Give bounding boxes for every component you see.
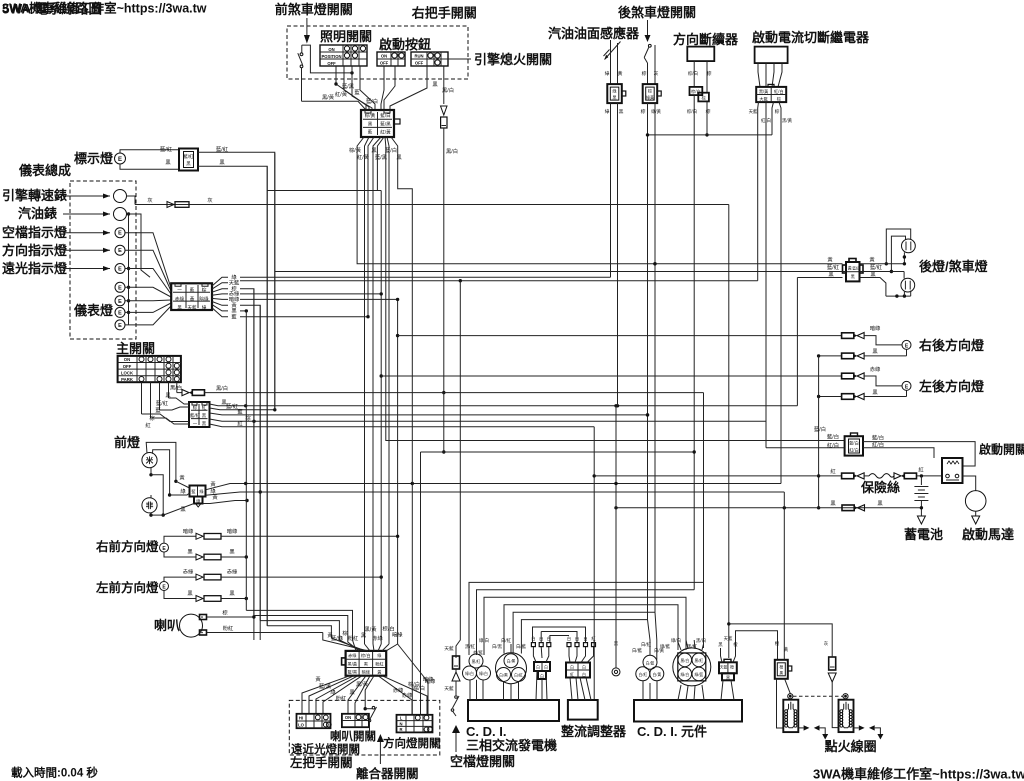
wire horn 粉紅 <box>207 624 323 633</box>
wire 右後方向燈 top <box>864 336 902 345</box>
wire 暗綠 rear long <box>398 335 842 337</box>
label 三相交流發電機 <box>466 738 557 753</box>
wire relay 棕 down <box>772 102 774 135</box>
wire 藍 end dot <box>646 413 649 416</box>
svg-text:標示燈: 標示燈 <box>74 151 114 166</box>
svg-text:藍/白: 藍/白 <box>827 433 839 441</box>
svg-text:綠/黃: 綠/黃 <box>651 108 661 115</box>
wire pickup leads up <box>533 647 548 662</box>
wire relay pin labels <box>749 108 793 124</box>
svg-text:E: E <box>118 323 122 329</box>
svg-text:天藍: 天藍 <box>229 279 240 287</box>
svg-text:紅/白: 紅/白 <box>827 441 839 449</box>
svg-text:棕/白: 棕/白 <box>687 108 697 115</box>
bus v 275 <box>274 153 276 410</box>
svg-text:LO: LO <box>298 723 305 728</box>
wire relay 紅白 down <box>765 102 767 448</box>
svg-text:E: E <box>118 285 122 291</box>
svg-text:黃: 黃 <box>377 669 381 676</box>
wire 啟動按鈕 pins down <box>381 66 395 110</box>
svg-text:藍/白: 藍/白 <box>366 97 378 105</box>
svg-text:ON: ON <box>124 357 130 362</box>
svg-text:黃: 黃 <box>848 265 852 271</box>
bus v 783 <box>783 492 785 660</box>
connector 後燈 <box>843 259 864 282</box>
wire 黑/白 right segment <box>444 392 704 394</box>
connector coil2 inline <box>829 657 836 670</box>
wire 暗綠 front long <box>221 535 398 537</box>
svg-text:黃: 黃 <box>827 256 833 264</box>
arrow 空檔 down <box>452 669 460 695</box>
connector 左把手開關 9-pin <box>342 651 387 676</box>
wire fan into 主開關 connector <box>142 392 190 429</box>
connector 標示燈 <box>179 149 198 171</box>
svg-text:綠: 綠 <box>210 487 216 495</box>
wire label 藍/黑 <box>342 82 355 90</box>
svg-text:白/藍: 白/藍 <box>632 647 643 654</box>
label 前煞車燈開關 <box>275 2 353 17</box>
wire horn 棕 <box>207 609 256 619</box>
wire 黑 tail bus <box>797 277 842 279</box>
connector 汽油油面感應器 <box>607 84 626 103</box>
svg-text:引擎轉速錶: 引擎轉速錶 <box>2 188 67 203</box>
wire bracket b9 <box>550 636 569 643</box>
wire stub cdi coil top <box>648 620 651 656</box>
lamp 遠光指示燈 <box>115 264 125 274</box>
wire 右後方向燈 bottom <box>906 349 908 356</box>
wire tach to grey line <box>127 196 136 205</box>
wire tail left labels <box>827 256 840 279</box>
wire 左後方向燈 bottom <box>906 390 908 396</box>
svg-text:方向指示燈: 方向指示燈 <box>2 243 68 258</box>
svg-text:粉紅: 粉紅 <box>348 634 359 642</box>
svg-text:白/黑: 白/黑 <box>499 673 508 678</box>
svg-text:汽油錶: 汽油錶 <box>18 206 57 221</box>
svg-text:RUN: RUN <box>414 53 423 58</box>
wire 黑 battery line <box>614 506 923 509</box>
label 方向斷續器 <box>673 32 739 47</box>
svg-text:前煞車燈開關: 前煞車燈開關 <box>275 2 353 17</box>
svg-text:紅/白: 紅/白 <box>872 441 884 449</box>
svg-text:橙: 橙 <box>779 665 783 670</box>
svg-text:左前方向燈: 左前方向燈 <box>95 580 159 595</box>
switch table 引擎熄火開關 <box>411 52 448 66</box>
svg-text:方向燈開關: 方向燈開關 <box>383 736 441 750</box>
svg-text:黑: 黑 <box>619 109 624 115</box>
label 右前方向燈 <box>95 539 159 554</box>
svg-text:灰: 灰 <box>147 196 152 204</box>
svg-text:白: 白 <box>567 635 571 642</box>
svg-text:黑/黃: 黑/黃 <box>356 680 369 688</box>
svg-text:棕: 棕 <box>775 108 780 115</box>
svg-text:白: 白 <box>536 665 540 670</box>
svg-text:OFF: OFF <box>380 60 389 65</box>
watermark bottom-right <box>813 767 1024 781</box>
svg-text:黃: 黃 <box>618 70 623 77</box>
svg-text:遠近光燈開關: 遠近光燈開關 <box>291 742 360 756</box>
svg-text:整流調整器: 整流調整器 <box>560 724 627 739</box>
bus v 356 <box>357 148 842 265</box>
wire 藍白 starter long <box>386 148 845 441</box>
switch 後煞車燈開關 contact <box>644 44 655 84</box>
lamp 儀表燈1 <box>115 282 125 292</box>
svg-text:右把手開關: 右把手開關 <box>411 6 477 21</box>
svg-text:E: E <box>118 310 122 316</box>
wire fan 左把手 to HI/LO <box>302 676 362 714</box>
wire 左後 to bus <box>817 395 907 398</box>
svg-text:暗綠: 暗綠 <box>392 631 403 639</box>
wire staircase bus2 <box>254 616 359 651</box>
ground circle <box>612 641 620 676</box>
wire label 藍/黑 below <box>375 153 388 161</box>
svg-text:白: 白 <box>582 665 586 670</box>
svg-text:藍/紅: 藍/紅 <box>183 153 194 160</box>
bus v 645 brake <box>646 103 649 620</box>
wire fan labels below <box>315 675 434 702</box>
wire label 藍/白 below <box>385 146 397 154</box>
wire 赤綠 front long <box>221 576 381 578</box>
svg-text:暗綠: 暗綠 <box>425 677 436 685</box>
arrow 汽油錶 <box>63 212 110 217</box>
connector symbols 左前方向燈 b <box>187 590 235 602</box>
svg-text:藍/白: 藍/白 <box>385 146 397 154</box>
cdi unit coil labels <box>632 641 665 654</box>
wire 主開關 pins down <box>142 382 177 418</box>
svg-text:灰: 灰 <box>824 640 829 647</box>
svg-text:綠黃: 綠黃 <box>646 94 654 100</box>
svg-text:灰: 灰 <box>654 70 659 77</box>
wire 前燈 loop1 <box>146 442 177 496</box>
wire 黑 to bus <box>240 309 248 312</box>
svg-text:黑: 黑 <box>779 672 783 676</box>
svg-text:一: 一 <box>177 288 182 293</box>
bus v 702 kill <box>703 393 705 648</box>
svg-text:棕: 棕 <box>701 94 705 101</box>
svg-text:黃: 黃 <box>210 480 216 488</box>
wire 藍紅 tail <box>860 272 905 279</box>
label 儀表燈 <box>73 303 114 318</box>
label 啟動馬達 <box>962 527 1014 542</box>
wire bracket b6 <box>521 620 647 654</box>
svg-text:C. D. I.: C. D. I. <box>466 724 506 739</box>
svg-text:儀表總成: 儀表總成 <box>18 163 71 178</box>
wire 紅 to rectifier <box>593 640 595 647</box>
wire 暗綠 long <box>240 298 398 300</box>
arrow 遠光指示燈 <box>63 266 110 271</box>
svg-text:黑: 黑 <box>432 81 438 88</box>
svg-text:綠: 綠 <box>605 70 610 77</box>
svg-text:3WA機車維修工作室~https://3wa.tw: 3WA機車維修工作室~https://3wa.tw <box>813 767 1024 781</box>
wire label 紅/黃 <box>335 90 348 98</box>
connector 前燈 <box>190 486 206 508</box>
wire pickup coil up <box>775 640 789 653</box>
svg-text:黑: 黑 <box>187 590 193 597</box>
svg-text:黑/紅: 黑/紅 <box>465 643 476 650</box>
connector 後煞車燈開關 <box>643 84 662 103</box>
svg-text:綠/藍: 綠/藍 <box>694 672 703 677</box>
switch table 主開關 <box>118 356 181 382</box>
dashed box 儀表總成 <box>70 181 136 339</box>
svg-text:汽油油面感應器: 汽油油面感應器 <box>548 26 640 41</box>
wire 主開關 黑 line <box>210 399 248 407</box>
lamp 前燈2 <box>142 498 157 513</box>
svg-text:黑: 黑 <box>872 389 878 396</box>
svg-text:左把手開關: 左把手開關 <box>289 755 353 770</box>
wire cdi conn labels <box>718 635 738 648</box>
svg-text:紅: 紅 <box>145 421 151 429</box>
svg-text:右後方向燈: 右後方向燈 <box>918 338 985 353</box>
bus v 797 <box>796 278 798 406</box>
svg-text:離合器開關: 離合器開關 <box>356 766 419 781</box>
svg-text:黑/黃: 黑/黃 <box>322 93 335 101</box>
svg-text:藍/黑: 藍/黑 <box>319 682 332 690</box>
lamp 儀表燈4 <box>115 320 125 330</box>
ignition coil 1 <box>783 694 798 733</box>
wire generator leads down <box>470 680 483 700</box>
label 離合器開關 <box>356 766 419 781</box>
svg-text:棕: 棕 <box>641 108 646 115</box>
svg-text:紅: 紅 <box>202 404 207 411</box>
svg-text:藍: 藍 <box>237 408 243 416</box>
wire fan 左把手 to turn switch <box>378 676 427 715</box>
bus v 254 <box>253 289 255 616</box>
wire bracket b5 <box>513 612 655 652</box>
svg-text:L: L <box>400 716 403 721</box>
wire label 藍/紅 b <box>216 145 229 153</box>
wire brake sw labels <box>641 70 662 115</box>
wire labels turn switch <box>402 677 436 699</box>
svg-text:喇叭: 喇叭 <box>154 618 180 633</box>
svg-text:主開關: 主開關 <box>116 341 155 356</box>
wire 紅 fuse line <box>594 467 841 476</box>
svg-text:啟動電流切斷繼電器: 啟動電流切斷繼電器 <box>752 30 870 45</box>
wire 紅白 starter right <box>863 441 934 459</box>
svg-text:藍/黑: 藍/黑 <box>348 669 358 676</box>
svg-text:引擎熄火開關: 引擎熄火開關 <box>474 52 552 67</box>
svg-text:赤綠: 赤綠 <box>372 634 383 642</box>
relay box starter relay <box>942 458 963 483</box>
terminal 白 e <box>575 635 579 647</box>
wire grey long <box>135 196 729 208</box>
wire 赤綠 rear long <box>381 375 841 377</box>
svg-text:黑/紅: 黑/紅 <box>687 643 698 650</box>
svg-text:黑: 黑 <box>870 271 876 278</box>
lamp 左後方向燈 <box>902 381 911 390</box>
label 空檔燈開關 <box>450 754 515 769</box>
wire 左前方向燈 loop <box>164 577 196 598</box>
svg-text:灰: 灰 <box>207 196 212 204</box>
lamp 前燈1 <box>142 453 157 468</box>
svg-text:棕: 棕 <box>642 70 647 77</box>
arrow coil2 inline <box>828 673 838 728</box>
svg-text:綠/白: 綠/白 <box>671 637 681 644</box>
svg-text:天藍: 天藍 <box>444 645 454 652</box>
terminal 白 c <box>547 635 551 647</box>
bus v 781 lower <box>0 0 1 1</box>
svg-text:紅: 紅 <box>918 466 924 474</box>
svg-text:黑: 黑 <box>830 500 836 507</box>
wire 右前方向燈 loop <box>164 536 196 557</box>
wire kill down <box>442 128 458 394</box>
svg-text:赤綠: 赤綠 <box>402 691 413 699</box>
svg-text:天藍: 天藍 <box>444 685 454 692</box>
switch table 遠近光燈開關 <box>297 714 332 728</box>
wire 主開關 藍紅 line <box>210 402 277 411</box>
switch 前煞車燈開關 contact <box>298 45 354 101</box>
wire 藍 long <box>240 316 368 318</box>
svg-text:黑: 黑 <box>349 689 355 696</box>
svg-text:紅/白: 紅/白 <box>849 447 859 454</box>
wire turn switch 暗綠 in <box>398 644 428 715</box>
lamp 儀表燈3 <box>115 307 125 317</box>
svg-text:白: 白 <box>544 665 548 670</box>
wire 主開關 藍 line <box>210 408 648 416</box>
svg-text:天藍: 天藍 <box>720 665 728 670</box>
svg-text:藍/白: 藍/白 <box>814 425 826 433</box>
wire 藍白 starter right <box>863 434 975 467</box>
svg-text:白/紅: 白/紅 <box>501 637 512 644</box>
wire mid bundle into connector <box>365 644 398 651</box>
svg-text:米: 米 <box>146 455 154 465</box>
label C.D.I. <box>466 724 506 739</box>
label 整流調整器 <box>560 724 627 739</box>
wire label 紅/黃 below <box>357 153 370 161</box>
svg-text:5WA 電系線路圖: 5WA 電系線路圖 <box>2 1 102 17</box>
wire 黃 headlight long <box>206 480 782 490</box>
spark gap coil1 <box>798 725 828 739</box>
svg-text:黑/白: 黑/白 <box>696 637 706 644</box>
svg-text:白/藍: 白/藍 <box>646 660 655 665</box>
wire 主開關 棕 line <box>210 414 767 423</box>
wire 標示燈 loop <box>120 150 179 170</box>
wire fanout below connector <box>357 137 398 148</box>
svg-text:點火線圈: 點火線圈 <box>825 739 877 754</box>
svg-text:紅: 紅 <box>830 467 836 475</box>
svg-text:ON: ON <box>328 47 334 52</box>
svg-text:E: E <box>118 299 122 305</box>
label 蓄電池 <box>904 527 943 542</box>
label C.D.I.元件 <box>637 724 707 739</box>
svg-text:白: 白 <box>582 672 586 677</box>
wire label 黑 kill <box>432 81 438 88</box>
wire 黑 tail <box>860 278 886 297</box>
connector 儀表 9-pin <box>171 283 212 311</box>
svg-text:黑: 黑 <box>361 632 367 639</box>
svg-text:棕: 棕 <box>777 95 781 102</box>
wire rectifier leads down <box>570 678 591 701</box>
fuse 保險絲 <box>864 474 894 479</box>
svg-text:綠/藍: 綠/藍 <box>660 643 671 650</box>
svg-text:白: 白 <box>531 635 535 642</box>
dashed box 左把手開關 <box>289 700 440 755</box>
label 啟動電流切斷繼電器 <box>752 30 870 45</box>
svg-text:後煞車燈開關: 後煞車燈開關 <box>618 5 696 20</box>
svg-text:空檔燈開關: 空檔燈開關 <box>450 754 515 769</box>
svg-text:白: 白 <box>570 665 574 670</box>
wire 前煞車燈開關 to connector <box>302 93 367 110</box>
svg-text:黑: 黑 <box>229 549 235 556</box>
svg-text:黑/白: 黑/白 <box>446 147 458 155</box>
lamp 右後方向燈 <box>902 340 911 349</box>
wire fan 左把手 to clutch <box>364 676 375 711</box>
svg-text:載入時間:0.04 秒: 載入時間:0.04 秒 <box>11 766 98 780</box>
wire 前燈 connector leads <box>163 474 194 516</box>
svg-text:綠/白: 綠/白 <box>479 671 488 676</box>
connector cdi unit right <box>719 659 737 680</box>
connector pickup <box>534 662 550 679</box>
svg-text:黑/紅: 黑/紅 <box>472 659 481 664</box>
svg-text:紅: 紅 <box>237 419 243 427</box>
battery 蓄電池 <box>914 476 928 513</box>
wire cdi unit coil leads <box>643 681 657 700</box>
wire cdi conn leads up <box>721 631 778 663</box>
svg-text:黑/紅: 黑/紅 <box>694 658 703 663</box>
svg-text:白/黑: 白/黑 <box>507 659 516 664</box>
wire label 藍/白 <box>366 97 378 105</box>
wire 左後方向燈 top <box>864 376 902 386</box>
wire relay 天藍 down <box>757 102 760 281</box>
label 保險絲 <box>860 480 900 495</box>
svg-text:橙: 橙 <box>733 641 738 648</box>
relay box 啟動電流切斷繼電器 <box>755 47 788 64</box>
svg-text:三相交流發電機: 三相交流發電機 <box>466 738 557 753</box>
svg-text:暗綠: 暗綠 <box>183 527 194 535</box>
svg-text:保險絲: 保險絲 <box>860 480 900 495</box>
connector 右把手開關 6-pin <box>361 110 400 137</box>
svg-text:藍紅: 藍紅 <box>852 266 860 271</box>
svg-text:天藍: 天藍 <box>749 108 758 115</box>
wire 藍紅 tail long <box>275 271 846 273</box>
label 左前方向燈 <box>95 580 159 595</box>
label 汽油油面感應器 <box>548 26 640 41</box>
svg-text:赤綠: 赤綠 <box>870 365 881 373</box>
svg-text:非: 非 <box>146 500 154 510</box>
connector symbols 右前方向燈 b <box>187 549 235 561</box>
arrow 前煞車燈開關 <box>304 18 310 44</box>
svg-text:藍: 藍 <box>231 313 237 321</box>
lamp 儀表燈2 <box>115 296 125 306</box>
svg-text:藍/紅: 藍/紅 <box>156 399 169 407</box>
wire 黃 tail link <box>860 262 907 265</box>
label 主開關 <box>116 341 155 356</box>
wire bracket b3 <box>484 597 686 655</box>
svg-text:黑/黃: 黑/黃 <box>759 88 769 95</box>
wire bracket b7 <box>533 627 586 643</box>
svg-text:啟動開關: 啟動開關 <box>979 442 1024 457</box>
svg-text:白/黃: 白/黃 <box>652 672 661 677</box>
wire fuel sensor down <box>605 103 624 406</box>
wire fuel gauge down <box>127 214 151 277</box>
svg-text:白/紅: 白/紅 <box>638 672 647 677</box>
bus v 364 <box>364 148 366 644</box>
dashed link coils <box>793 695 843 697</box>
terminal 紅 g <box>591 635 596 647</box>
cdi unit coil circles <box>636 655 664 681</box>
svg-text:ON: ON <box>381 53 387 58</box>
svg-text:藍: 藍 <box>190 287 195 293</box>
svg-text:黑/黃: 黑/黃 <box>348 660 358 667</box>
svg-text:黑: 黑 <box>229 590 235 597</box>
svg-text:C. D. I. 元件: C. D. I. 元件 <box>637 724 707 739</box>
wire 右後 to bus <box>817 354 907 357</box>
cdi unit big labels <box>660 637 706 650</box>
wire label 藍 <box>354 88 360 96</box>
wire label 黑 a <box>165 159 171 166</box>
label 空檔指示燈 <box>2 225 68 240</box>
wire staircase bus4 <box>267 626 365 651</box>
arrow 空檔燈開關 up <box>452 725 460 752</box>
ground 蓄電池 <box>917 513 925 524</box>
